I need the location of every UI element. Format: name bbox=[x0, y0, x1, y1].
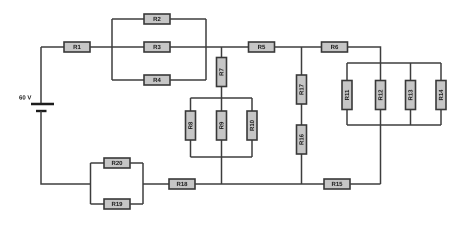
wire R13 lead bbox=[410, 63, 412, 125]
resistor R3 bbox=[144, 42, 170, 52]
resistor R20 bbox=[104, 158, 130, 168]
resistor R18 bbox=[169, 179, 195, 189]
svg-text:R3: R3 bbox=[153, 44, 161, 51]
svg-text:R14: R14 bbox=[438, 89, 445, 101]
wire right block bottom rail bbox=[347, 124, 441, 126]
svg-text:R6: R6 bbox=[331, 44, 339, 51]
wire R12 lead bbox=[380, 63, 382, 125]
wire R3 row right bbox=[170, 46, 206, 48]
resistor R4 bbox=[144, 75, 170, 85]
wire R17 R16 vertical bbox=[301, 47, 303, 184]
svg-text:R19: R19 bbox=[111, 201, 123, 208]
wire R9 lead bbox=[221, 98, 223, 157]
svg-text:R4: R4 bbox=[153, 77, 161, 84]
wire middle block down lead bbox=[221, 157, 223, 184]
resistor R12 bbox=[376, 81, 386, 110]
svg-text:R1: R1 bbox=[73, 44, 81, 51]
svg-text:R20: R20 bbox=[111, 160, 123, 167]
svg-text:R2: R2 bbox=[153, 16, 161, 23]
wire battery top lead bbox=[40, 47, 42, 104]
wire R2 row left bbox=[112, 18, 144, 20]
battery long plate bbox=[31, 103, 54, 105]
wire block5 to R18 bbox=[143, 183, 169, 185]
svg-text:R15: R15 bbox=[331, 181, 343, 188]
resistor R2 bbox=[144, 14, 170, 24]
svg-text:R8: R8 bbox=[188, 121, 195, 129]
svg-text:R10: R10 bbox=[249, 119, 256, 131]
svg-text:R7: R7 bbox=[219, 68, 226, 76]
resistor R1 bbox=[64, 42, 90, 52]
resistor R5 bbox=[249, 42, 275, 52]
resistor R11 bbox=[342, 81, 352, 110]
resistor R17 bbox=[297, 75, 307, 104]
wire R19 row right bbox=[130, 203, 143, 205]
wire R5 to R6 bbox=[275, 46, 322, 48]
svg-text:R5: R5 bbox=[258, 44, 266, 51]
wire block1 to R5 bbox=[206, 46, 249, 48]
resistor R8 bbox=[186, 111, 196, 140]
svg-text:R16: R16 bbox=[299, 133, 306, 145]
resistor R14 bbox=[436, 81, 446, 110]
svg-text:60 V: 60 V bbox=[19, 95, 31, 102]
resistor R6 bbox=[322, 42, 348, 52]
wire R7 vertical lead bbox=[221, 47, 223, 98]
svg-text:R11: R11 bbox=[344, 89, 351, 100]
wire R4 row left bbox=[112, 79, 144, 81]
wire R19 row left bbox=[91, 203, 105, 205]
wire R6 to right corner and down bbox=[348, 47, 381, 63]
resistor R13 bbox=[406, 81, 416, 110]
wire R3 row left bbox=[112, 46, 144, 48]
resistor R10 bbox=[247, 111, 257, 140]
wire R2 row right bbox=[170, 18, 206, 20]
wire bottom rail R18 to R15 bbox=[195, 183, 324, 185]
wire battery bottom lead bbox=[41, 111, 91, 184]
node block1 right vertical bbox=[205, 19, 207, 80]
svg-text:R18: R18 bbox=[176, 181, 188, 188]
wire R8 lead bbox=[190, 98, 192, 157]
node block5 left vertical bbox=[90, 163, 92, 204]
wire R20 row right bbox=[130, 162, 143, 164]
wire R20 row left bbox=[91, 162, 105, 164]
resistor R9 bbox=[217, 111, 227, 140]
resistor R19 bbox=[104, 199, 130, 209]
svg-text:R13: R13 bbox=[408, 89, 415, 101]
wire middle block bottom rail bbox=[191, 156, 253, 158]
svg-text:R9: R9 bbox=[219, 121, 226, 129]
wire right block top rail bbox=[347, 62, 441, 64]
wire R10 lead bbox=[251, 98, 253, 157]
wire R4 row right bbox=[170, 79, 206, 81]
wire R11 lead bbox=[346, 63, 348, 125]
resistor R7 bbox=[217, 58, 227, 87]
node block5 right vertical bbox=[142, 163, 144, 204]
resistor R16 bbox=[297, 125, 307, 154]
resistor R15 bbox=[324, 179, 350, 189]
wire R1 to parallel block bbox=[90, 46, 112, 48]
battery short plate bbox=[36, 110, 47, 112]
wire R15 to right down lead bbox=[350, 183, 381, 185]
node block1 left vertical bbox=[111, 19, 113, 80]
svg-text:R17: R17 bbox=[299, 83, 306, 95]
battery V1 bbox=[19, 95, 54, 112]
wire middle block top rail bbox=[191, 97, 253, 99]
wire right block down lead bbox=[380, 125, 382, 184]
wire R14 lead bbox=[440, 63, 442, 125]
svg-text:R12: R12 bbox=[378, 89, 385, 101]
wire top rail battery to R1 bbox=[41, 46, 64, 48]
